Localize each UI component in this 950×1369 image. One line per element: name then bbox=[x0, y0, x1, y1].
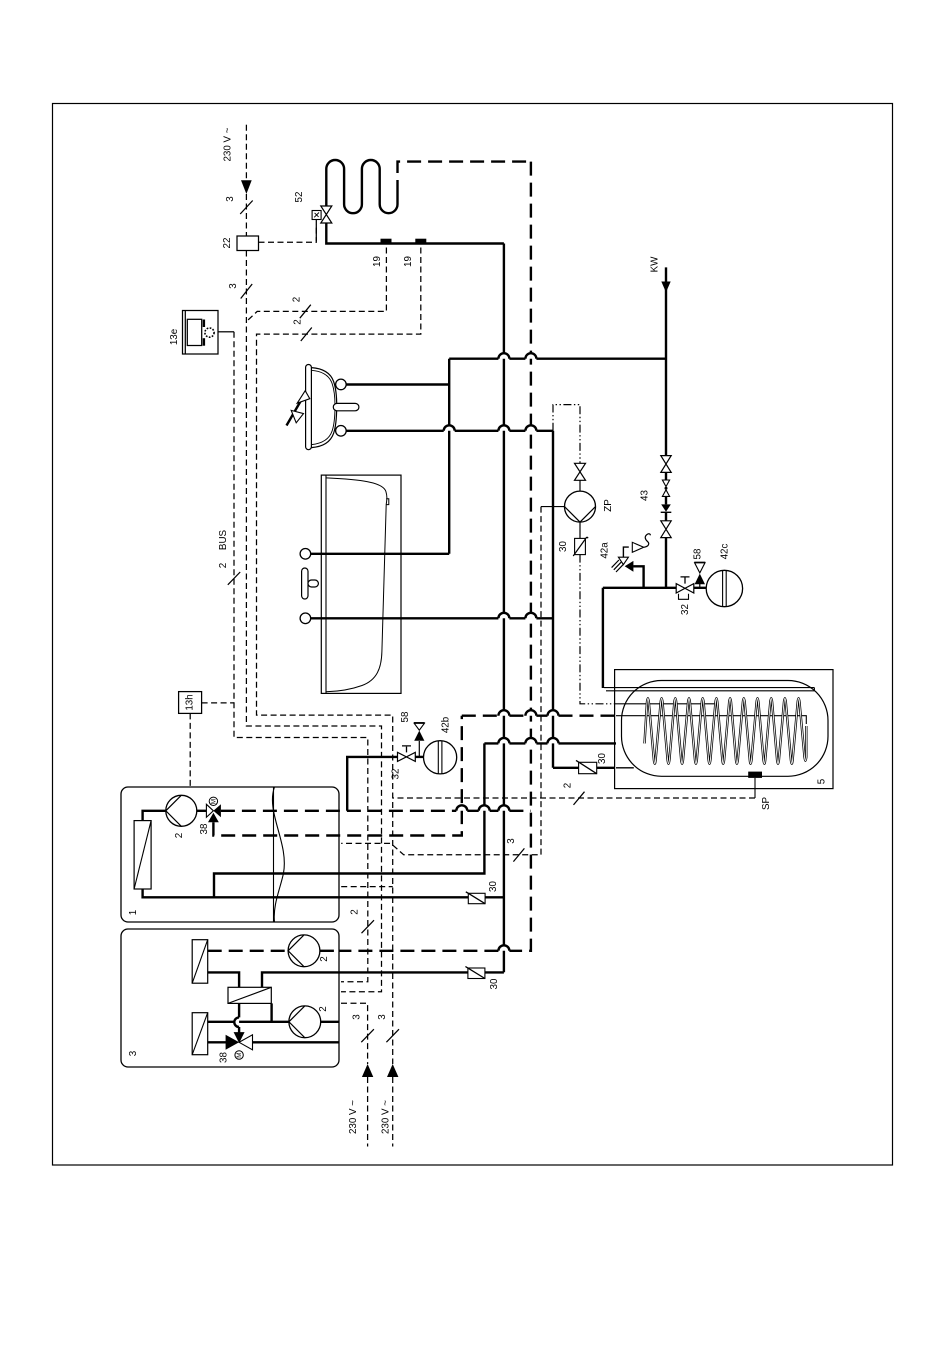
filter 30 (box 3 line) diagonal bbox=[465, 967, 485, 979]
pipe cold water to tub upper tap bbox=[311, 553, 449, 555]
border frame bbox=[53, 104, 893, 1166]
svg-text:22: 22 bbox=[222, 238, 233, 249]
node 43 reducer dot bbox=[665, 487, 668, 490]
pipe expansion vessel 42b line dropping to dashed heating line bbox=[347, 757, 397, 811]
slash wire count 2 on sensor cable 19 second bbox=[301, 328, 312, 342]
svg-text:42a: 42a bbox=[600, 542, 611, 559]
storage tank 5 vessel body bbox=[622, 681, 829, 777]
wire arrow to junction box 22 bbox=[245, 194, 247, 236]
coil heat exchanger spiral in tank (tube outer wall) bbox=[645, 698, 807, 763]
svg-text:38: 38 bbox=[219, 1052, 230, 1063]
valve 52 actuator inner mark bbox=[314, 213, 319, 218]
heat exchanger (box 1) body bbox=[134, 821, 151, 889]
valve circulation shut-off above ZP bbox=[575, 463, 586, 480]
washbasin bowl bbox=[312, 368, 337, 448]
pipe cold water horizontal from drop to KW tee, hops over risers bbox=[449, 358, 666, 360]
pipe dashed heat exchanger to pump (box 3) bbox=[208, 950, 288, 952]
valve 38 (box 3) filled triangle left bbox=[226, 1035, 240, 1050]
valve 38 (box 3) open triangle right bbox=[239, 1035, 252, 1050]
pump ZP impeller triangle (pointing down) bbox=[565, 507, 596, 522]
svg-text:2: 2 bbox=[319, 956, 330, 961]
check valve 43 seat bar bbox=[661, 511, 672, 513]
svg-text:3: 3 bbox=[228, 283, 239, 289]
washbasin spray nozzle lower bbox=[291, 410, 303, 422]
pipe pump suction from heat exchanger bbox=[143, 811, 166, 821]
pipe hop bridge at (461.8,810.8) bbox=[456, 805, 467, 811]
circulation return line into tank bbox=[616, 703, 717, 705]
expansion vessel 42b shell bbox=[424, 741, 457, 774]
wire module 13h down to appliance box 1 bbox=[189, 713, 191, 787]
slash wire count 3 on right supply bbox=[386, 1029, 399, 1042]
svg-text:52: 52 bbox=[294, 192, 305, 203]
pipe warm water from tub lower tap right with hops, tee into riser bbox=[311, 617, 553, 619]
check valve 58 (heating) open triangle bbox=[414, 723, 424, 730]
module 13h housing bbox=[179, 692, 202, 714]
washbasin bowl inner rim bbox=[312, 370, 336, 444]
valve 32 drain cup bbox=[679, 594, 689, 600]
washbasin hand spray wand bbox=[287, 395, 305, 426]
wire 230V supply arrow (left) bbox=[362, 1064, 373, 1077]
pump 2 (box 3 lower) impeller triangle (pointing left) bbox=[289, 1006, 305, 1038]
wire junction box 22 down to box 3 (3-core) bbox=[246, 251, 381, 992]
svg-text:42b: 42b bbox=[441, 716, 452, 733]
pipe heating flow dashed from valve 38 right, hops, tee into dashed riser bbox=[221, 810, 531, 812]
plate heat exchanger (box 3) body bbox=[228, 987, 271, 1003]
pipe hop bridge at (503.9,950.8) bbox=[498, 945, 509, 951]
arrow KW flow direction bbox=[661, 282, 670, 293]
svg-text:2: 2 bbox=[350, 909, 361, 914]
pipe KW cold water inlet from top bbox=[665, 267, 667, 455]
pipe warm water riser to tank bottom connection (through filter 30) bbox=[553, 767, 616, 769]
wire pump ZP control cable bbox=[341, 507, 541, 855]
svg-text:M: M bbox=[236, 1053, 243, 1058]
svg-text:KW: KW bbox=[650, 256, 661, 273]
pipe heating circuit serpentine (floor heating loop) bbox=[326, 160, 397, 213]
filter 30 (box 1 line) body bbox=[468, 893, 485, 903]
wire box 1 auxiliary cable to junction bbox=[341, 886, 393, 888]
svg-text:230 V ~: 230 V ~ bbox=[348, 1100, 359, 1134]
pump 2 (box 3 upper) casing bbox=[288, 935, 320, 967]
expansion vessel 42b membrane (double line) bbox=[438, 741, 442, 774]
svg-text:2: 2 bbox=[174, 833, 185, 838]
slash wire count 3 on ZP cable bbox=[513, 848, 524, 861]
svg-text:1: 1 bbox=[128, 910, 139, 915]
pipe circulation dash-dot-dot down to tank bbox=[580, 555, 616, 704]
valve 38 (box 3) motor M bbox=[235, 1051, 243, 1059]
svg-text:30: 30 bbox=[597, 753, 608, 764]
coil heat exchanger spiral in tank (tube white core) bbox=[645, 698, 807, 763]
svg-text:3: 3 bbox=[377, 1014, 388, 1020]
svg-text:230 V ~: 230 V ~ bbox=[381, 1100, 392, 1134]
svg-text:38: 38 bbox=[199, 823, 210, 834]
pipe hop bridge at (503.9,618.3) bbox=[498, 613, 509, 619]
pipe dashed from valve 38 bottom port to tank coil feed riser bbox=[213, 716, 461, 836]
pipe cold water branch to sink upper tap bbox=[346, 383, 449, 385]
node tub lower connection bbox=[300, 613, 311, 624]
wire BUS from controller 13e (solid stub) bbox=[218, 331, 234, 333]
svg-text:230 V ~: 230 V ~ bbox=[223, 127, 234, 161]
svg-text:5: 5 bbox=[817, 778, 828, 784]
check valve 43 (filled triangle with seat bar) bbox=[661, 504, 671, 511]
pipe hop bridge at (530.9,743.4) bbox=[525, 738, 536, 743]
pipe valve 32 to vessel 42b bbox=[415, 756, 423, 758]
pipe hop bridge (vertical) in box 3 bbox=[234, 1017, 239, 1027]
valve 43 pressure reducer small bowtie with dot bbox=[662, 480, 669, 496]
arrow flow into valve 38 (box 3) bbox=[234, 1032, 245, 1043]
svg-text:ZP: ZP bbox=[603, 499, 614, 512]
check valve 58 (heating) cap bar bbox=[414, 722, 425, 724]
pipe pump 2 to valve 38 bbox=[197, 810, 207, 812]
valve 32 (heating) bowtie bbox=[398, 752, 416, 761]
svg-text:SP: SP bbox=[761, 797, 772, 811]
filter 30 (box 1 line) diagonal bbox=[466, 892, 485, 904]
bathtub faucet body bbox=[302, 568, 308, 599]
svg-text:32: 32 bbox=[680, 604, 691, 615]
check valve 58 (heating) stub bbox=[418, 741, 420, 757]
filter 30 (circulation) diagonal bbox=[573, 537, 588, 556]
coil heating flow entry line inside tank bbox=[616, 716, 806, 724]
wire 230V supply dashes below right arrow bbox=[392, 1077, 394, 1147]
slash wire count 2 on SP cable bbox=[574, 792, 585, 805]
check valve 58 (heating) filled triangle bbox=[414, 731, 424, 741]
bathtub faucet spout bbox=[308, 580, 318, 587]
plate heat exchanger (box 3) diagonal bbox=[228, 987, 271, 1003]
svg-text:M: M bbox=[210, 799, 217, 804]
slash wire count 3 on mains above box 22 bbox=[240, 201, 253, 215]
pipe heating return from tank coil, hops over risers bbox=[484, 742, 616, 744]
bathtub inner shell bbox=[326, 478, 387, 692]
valve 38 (box 1) motor M bbox=[209, 797, 217, 805]
node tub upper connection bbox=[300, 549, 311, 560]
pipe stub valve to pump ZP bbox=[579, 480, 581, 491]
svg-text:3: 3 bbox=[128, 1050, 139, 1056]
valve 52 thermal actuator box bbox=[312, 211, 321, 220]
svg-text:30: 30 bbox=[488, 881, 499, 892]
pipe circulation dash-dot-dot riser from warm water line bbox=[553, 405, 580, 464]
pipe solid plate HX up and out of box 3 to riser corner bbox=[262, 972, 504, 987]
pipe heating return into box 1 upper bbox=[214, 743, 484, 897]
valve 43 shut-off (upper bowtie) bbox=[661, 456, 671, 473]
tank lower connection stub (warm water) bbox=[616, 767, 634, 769]
box 1 internal partition line bbox=[273, 787, 275, 922]
wire 230V supply arrow (right) bbox=[387, 1064, 398, 1077]
wire floor sensor 19 (second) down-left-down to 230V arrow bbox=[257, 248, 421, 1065]
pipe cold water distribution: tank dip-tube drop to 42c bbox=[603, 587, 706, 589]
valve 32 (tank service valve) bowtie bbox=[676, 584, 694, 593]
svg-text:2: 2 bbox=[318, 1006, 329, 1011]
pump 2 (box 1) impeller triangle (pointing left) bbox=[166, 795, 182, 826]
arrow mains supply direction (down) bbox=[241, 180, 252, 194]
check valve 58 open triangle with cap bar bbox=[695, 563, 705, 573]
wire module 13h to BUS line bbox=[202, 702, 234, 704]
wire valve 52 actuator cable (solid part) bbox=[315, 224, 317, 241]
pipe heating flow riser down to box 3 bbox=[503, 244, 505, 973]
pipe hop bridge at (449.2,430.8) bbox=[444, 425, 455, 431]
controller 13e display bbox=[187, 319, 201, 345]
controller 13e button upper bbox=[203, 320, 205, 328]
pipe warm water riser (to storage tank) bbox=[552, 431, 554, 768]
pipe hop bridge at (503.9,430.8) bbox=[498, 425, 509, 431]
filter 30 (tank line) diagonal bbox=[576, 760, 597, 773]
pipe heating flow (dashed) to tank coil top, hops over risers bbox=[462, 715, 616, 717]
check valve 58 (tank) stub bbox=[699, 584, 701, 588]
slash wire count 2 on BUS cable bbox=[228, 572, 240, 585]
pipe hop bridge at (503.9,715.7) bbox=[498, 710, 509, 716]
wire BUS from controller 13e down, tee to 13h, into box 3 bbox=[234, 332, 368, 982]
svg-text:13e: 13e bbox=[169, 328, 180, 345]
svg-text:43: 43 bbox=[640, 490, 651, 501]
pipe heating flow: valve 52 down and right to riser bbox=[326, 223, 504, 244]
pipe heat exchanger lower to plate HX and pump 2 lower bbox=[208, 1003, 289, 1021]
filter 30 (tank line) body bbox=[579, 762, 597, 773]
svg-text:19: 19 bbox=[372, 256, 383, 267]
tank dip tube (double line) bbox=[604, 688, 814, 691]
junction box 22 bbox=[237, 236, 259, 251]
pipe hop bridge at (530.9,618.3) bbox=[525, 613, 536, 619]
check valve 58 filled triangle bbox=[695, 574, 705, 585]
svg-text:30: 30 bbox=[558, 541, 569, 552]
sensor 19 temperature limiter (first) on flow pipe bbox=[381, 239, 392, 244]
valve 32 (heating) stem and handle bbox=[402, 746, 411, 753]
pipe drop into tank dip tube bbox=[602, 588, 604, 688]
heat exchanger lower (box 3) body bbox=[192, 1013, 208, 1055]
pipe solid heat exchanger upper to plate HX bbox=[208, 972, 239, 987]
slash wire count 2 on sensor cable 19 first bbox=[300, 305, 311, 319]
pipe stub pump ZP to filter 30 bbox=[579, 522, 581, 538]
controller 13e inner left edge bbox=[184, 311, 186, 354]
pipe hop bridge at (530.9,430.8) bbox=[525, 425, 536, 431]
valve 38 (box 1) filled triangle bottom (pointing up) bbox=[208, 813, 219, 823]
pipe dashed pump out of box 3 to edge bbox=[320, 950, 340, 952]
pipe hop bridge at (503.9,358.7) bbox=[498, 353, 509, 359]
heat exchanger (box 1) diagonal bbox=[134, 821, 151, 889]
pipe between fittings of group 43 bbox=[665, 472, 667, 587]
controller 13e housing bbox=[183, 311, 219, 355]
heat exchanger upper (box 3) body bbox=[192, 940, 208, 984]
pipe cold water drop to sink and tub bbox=[448, 359, 450, 554]
svg-text:3: 3 bbox=[352, 1014, 363, 1020]
pipe hop bridge at (553.0,743.4) bbox=[548, 738, 559, 743]
expansion vessel 42c membrane (double line) bbox=[723, 571, 727, 607]
pump 2 (box 3 lower) casing bbox=[289, 1006, 321, 1038]
pipe pump 2 lower to box edge bbox=[321, 1021, 339, 1023]
pipe hop bridge at (503.9,810.8) bbox=[498, 805, 509, 811]
svg-text:2: 2 bbox=[293, 319, 304, 324]
svg-text:19: 19 bbox=[403, 256, 414, 267]
svg-text:30: 30 bbox=[489, 978, 500, 989]
safety valve 42a cone (filled, pointing left) bbox=[625, 561, 634, 572]
filter 30 (box 3 line) body bbox=[468, 968, 485, 979]
node sink lower connection bbox=[336, 426, 347, 437]
wire box 3 power cable out right and down to 230V arrow bbox=[341, 1003, 368, 1064]
controller 13e button lower bbox=[203, 338, 205, 346]
safety valve 42a discharge elbow bbox=[623, 547, 628, 557]
pump ZP circulation pump bbox=[565, 491, 596, 522]
bathtub outer body bbox=[321, 475, 401, 693]
box 1 flame/heat wavy line bbox=[272, 787, 284, 922]
node sink upper connection bbox=[336, 379, 347, 390]
washbasin wall bar bbox=[306, 365, 312, 450]
svg-text:32: 32 bbox=[391, 769, 402, 780]
wire sensor SP dashed to junction bbox=[393, 797, 755, 799]
bathtub overflow nub bbox=[386, 499, 389, 505]
pipe hop bridge at (553.0,715.7) bbox=[548, 710, 559, 716]
safety valve 42a discharge funnel bbox=[632, 542, 643, 552]
pipe heating return lower from heat exchanger out to riser bbox=[143, 889, 504, 897]
controller 13e knob bbox=[205, 328, 214, 337]
valve 32 stem and handle bbox=[681, 577, 690, 584]
washbasin spray nozzle upper bbox=[297, 391, 310, 404]
svg-text:2: 2 bbox=[563, 783, 574, 788]
wire pump ZP control cable (solid stub at pump) bbox=[541, 506, 565, 508]
svg-text:2: 2 bbox=[218, 563, 229, 568]
storage tank 5 outer casing bbox=[615, 670, 833, 789]
pipe hop bridge at (484.2,810.8) bbox=[479, 805, 490, 811]
valve 43 shut-off (lower bowtie) bbox=[661, 521, 671, 538]
appliance box 3 housing bbox=[121, 929, 339, 1067]
pipe heating return dashed: serpentine end right to main dashed riser bbox=[398, 162, 531, 194]
slash wire count 2 on BUS cable lower bbox=[362, 920, 375, 933]
bathtub rim bar left bbox=[325, 475, 327, 693]
svg-text:3: 3 bbox=[225, 196, 236, 202]
pump 2 (box 3 upper) impeller triangle (pointing left) bbox=[288, 935, 304, 967]
pipe heating dashed riser down to box 3, hop over riser at x=504 bbox=[339, 162, 531, 951]
wire floor sensor 19 (first) down-left, merging into cable run bbox=[246, 248, 386, 322]
pipe hop bridge at (530.9,715.7) bbox=[525, 710, 536, 716]
safety valve 42a drain squiggle bbox=[644, 534, 651, 548]
svg-text:2: 2 bbox=[292, 297, 303, 302]
svg-text:58: 58 bbox=[400, 711, 411, 722]
pump 2 (box 1) casing bbox=[166, 795, 197, 826]
svg-text:42c: 42c bbox=[720, 544, 731, 560]
safety valve 42a connecting pipe bbox=[633, 566, 643, 588]
appliance box 1 housing bbox=[121, 787, 339, 922]
filter 30 (circulation) body bbox=[575, 538, 586, 554]
heat exchanger lower (box 3) diagonal bbox=[192, 1013, 208, 1055]
svg-text:BUS: BUS bbox=[218, 529, 229, 550]
sensor SP storage tank temperature bbox=[748, 772, 762, 778]
expansion vessel 42c shell bbox=[706, 570, 742, 606]
pipe warm water from sink lower tap right, hops over risers, corner down bbox=[346, 430, 553, 432]
slash wire count 3 on left supply bbox=[361, 1029, 374, 1042]
pipe valve 38 right to box edge bbox=[252, 1041, 339, 1043]
washbasin faucet arm bbox=[333, 403, 359, 410]
wire junction box 22 to valve 52 actuator bbox=[259, 220, 317, 243]
pipe hop bridge at (503.9,743.4) bbox=[498, 738, 509, 743]
sensor 19 temperature limiter (second) on flow pipe bbox=[415, 239, 426, 244]
wire sensor SP tail bbox=[754, 778, 756, 798]
slash wire count 3 below box 22 bbox=[241, 284, 253, 299]
safety valve 42a spring bbox=[612, 560, 624, 572]
svg-text:13h: 13h bbox=[185, 694, 196, 710]
valve 38 (box 1) filled triangle right bbox=[213, 804, 221, 817]
safety valve 42a seat triangle (open, pointing down) bbox=[618, 557, 628, 564]
check valve 58 cap bar bbox=[694, 561, 705, 563]
valve 38 (box 1) open triangle left bbox=[206, 804, 213, 817]
pipe hop bridge at (530.9,358.7) bbox=[525, 353, 536, 359]
heat exchanger upper (box 3) diagonal bbox=[192, 940, 208, 984]
svg-text:3: 3 bbox=[506, 838, 517, 844]
pipe plate HX down with hop over lower line, arrow into valve 38 bbox=[238, 1003, 240, 1033]
valve 52 zone valve body (bowtie) bbox=[321, 206, 332, 223]
wire 230V supply dashes below left arrow bbox=[367, 1077, 369, 1147]
svg-text:58: 58 bbox=[693, 548, 704, 559]
pipe valve 38 to heat exchanger lower bbox=[208, 1041, 226, 1043]
wire 230V~ mains supply to junction box 22 (3-core), dashed bbox=[245, 125, 247, 180]
